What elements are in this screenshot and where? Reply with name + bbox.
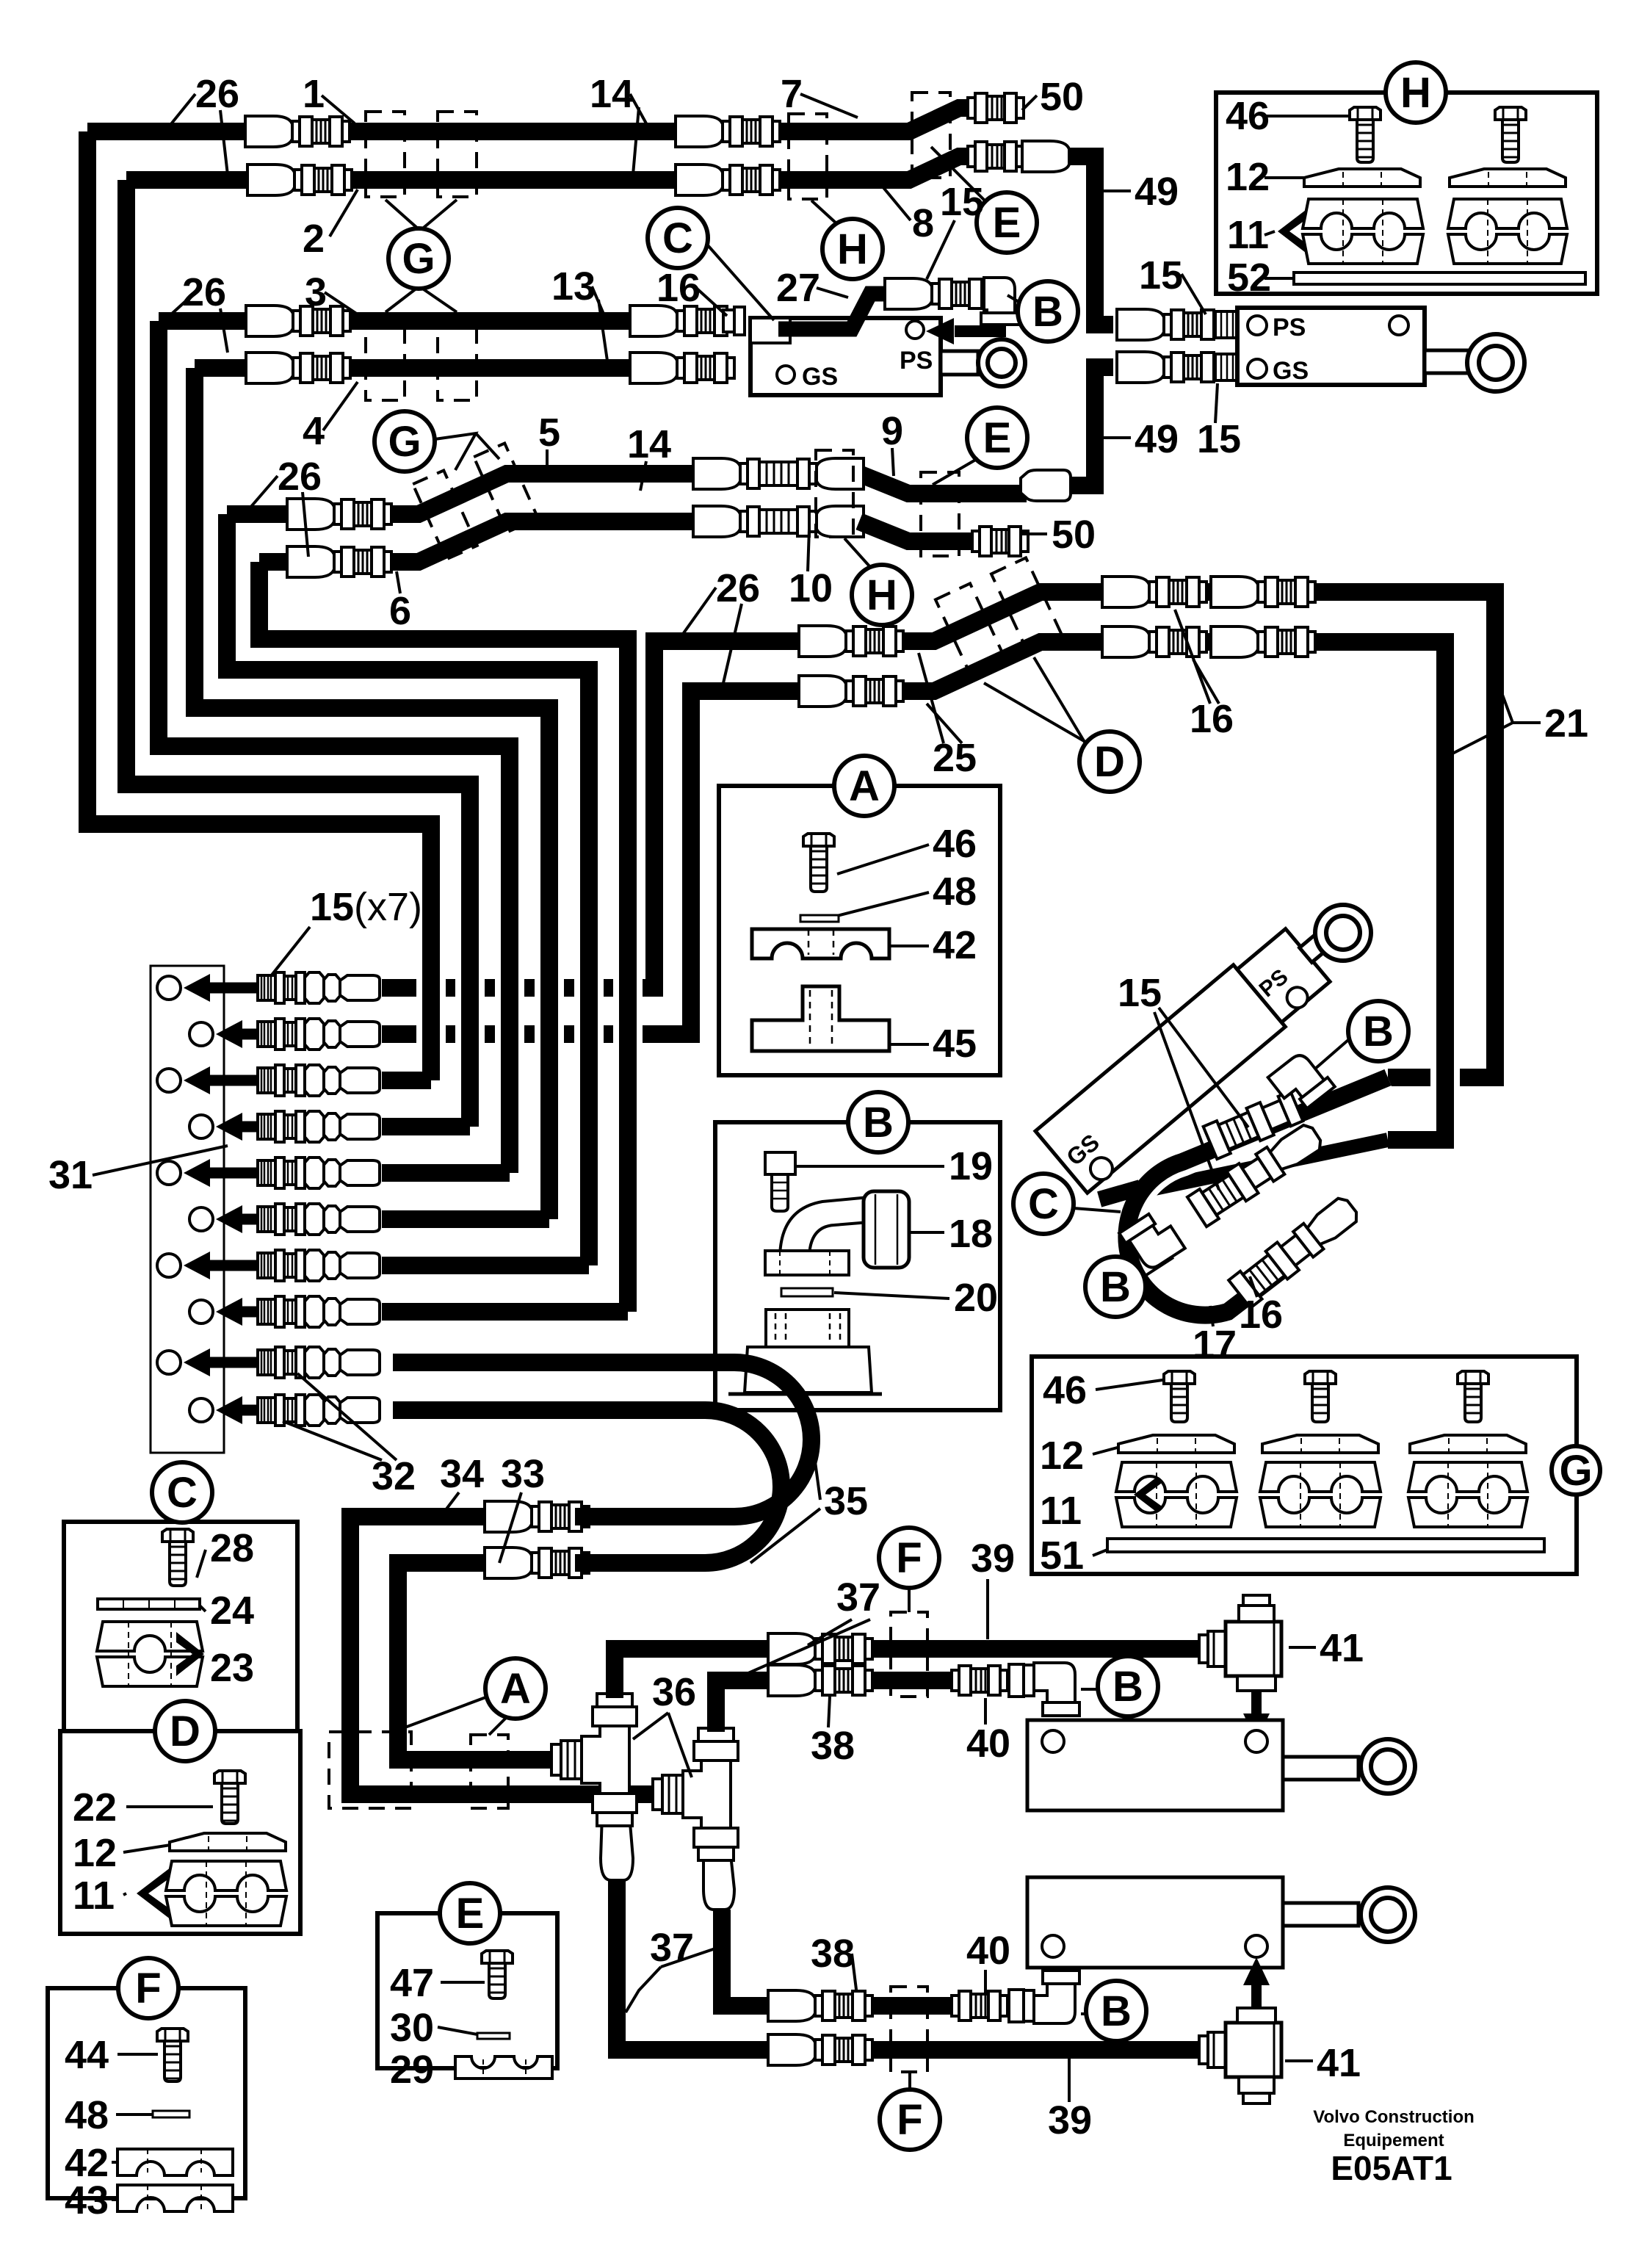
svg-text:B: B [1363, 1008, 1394, 1055]
ferrule tee1 bottom [601, 1814, 633, 1880]
manifold port circle row 8 [189, 1300, 213, 1323]
manifold hose row 5 [382, 1164, 510, 1182]
svg-text:21: 21 [1544, 701, 1588, 745]
svg-text:38: 38 [811, 1724, 855, 1768]
svg-text:E: E [993, 199, 1021, 247]
pointer 11 in D [137, 1863, 177, 1924]
tilted cylinder body [1035, 892, 1373, 1194]
svg-text:11: 11 [1040, 1489, 1082, 1533]
leader B upper cylinder [1081, 1688, 1098, 1691]
elbow B lower tilted [1119, 1207, 1185, 1274]
svg-text:26: 26 [716, 566, 760, 610]
svg-text:11: 11 [1227, 213, 1269, 257]
leader 31 [93, 1146, 228, 1175]
svg-text:33: 33 [501, 1452, 545, 1496]
callout C box [152, 1462, 212, 1523]
hose fitting [885, 278, 989, 309]
manifold hose row 7 [382, 1257, 589, 1274]
hose fitting [1117, 309, 1221, 340]
nut 40 upper [1009, 1664, 1024, 1697]
cover plate 12 in H (right) [1450, 169, 1566, 187]
callout E box [440, 1883, 500, 1943]
cylinder 1 [1027, 1720, 1358, 1810]
washer 20 in B [781, 1288, 833, 1296]
arrow row 1 [184, 974, 338, 1002]
hose 26 staircase line 4 [195, 368, 549, 1219]
manifold hose row 1 [382, 979, 654, 997]
svg-text:23: 23 [210, 1646, 254, 1690]
clamp 23 in C [97, 1622, 203, 1686]
cover plate 12 in D [170, 1833, 286, 1851]
svg-text:E: E [456, 1890, 485, 1937]
manifold hose row 3 [382, 1072, 431, 1089]
hose fitting [630, 306, 734, 336]
leader 9 [892, 448, 894, 476]
svg-text:Equipement: Equipement [1343, 2131, 1444, 2150]
bolt 46 in H (right) [1495, 107, 1526, 162]
callout F lower [880, 2090, 940, 2150]
svg-text:27: 27 [776, 266, 820, 310]
quick coupler 15 row 3 [258, 1065, 380, 1096]
leader 48 F [116, 2113, 153, 2116]
quick coupler 15 row 9 [258, 1347, 380, 1378]
eye ring upper valve [978, 339, 1025, 386]
hose 26 staircase line 5 [227, 514, 589, 1265]
svg-text:G: G [1559, 1447, 1592, 1495]
fitting 50 on hose 7 [968, 93, 1024, 123]
svg-text:15: 15 [1118, 971, 1162, 1015]
hose 26 riser to row 1 [382, 641, 799, 988]
bolt 46 in G [1164, 1371, 1195, 1422]
clamp position G hoses 5-6 b [474, 443, 538, 532]
leader 3 [325, 292, 358, 314]
cover plate 12 in G [1410, 1435, 1526, 1453]
svg-text:8: 8 [912, 201, 934, 245]
detail box G [1032, 1357, 1577, 1574]
svg-text:PS: PS [900, 347, 933, 375]
hose fitting [768, 1990, 872, 2021]
leaders 35 [814, 1451, 820, 1500]
leader 13 [592, 286, 605, 317]
hose fitting [799, 626, 903, 657]
manifold port circle row 2 [189, 1022, 213, 1046]
riser 49 lower [1066, 367, 1113, 485]
svg-text:28: 28 [210, 1526, 254, 1570]
detail box E [377, 1913, 557, 2068]
leader 33 [499, 1492, 521, 1563]
svg-text:A: A [500, 1665, 531, 1713]
ferrule tee2 bottom [703, 1855, 734, 1910]
hose 2 [126, 171, 247, 189]
extra nut 16 hose 3 [723, 307, 745, 335]
leader 11 H [1264, 231, 1275, 235]
eye ring tilted cylinder [1315, 905, 1371, 961]
callout D [1079, 732, 1140, 792]
manifold port circle row 3 [157, 1069, 181, 1092]
clamp position F lower [891, 1987, 927, 2072]
ferrule hose 9 right [1021, 470, 1071, 501]
clamp bar 52 [1294, 272, 1585, 284]
leader 8 [878, 181, 911, 220]
leader 43 [112, 2198, 117, 2201]
leader 52 H [1264, 277, 1294, 280]
clamp 11 in G [1408, 1462, 1527, 1527]
nut 40 lower [1009, 1990, 1024, 2022]
clamp position D b [991, 557, 1062, 651]
hose 26 staircase line 6 [259, 562, 628, 1312]
hose 38 upper run [716, 1680, 768, 1732]
svg-text:35: 35 [824, 1479, 868, 1523]
clamp position G hoses 3-4 b [438, 314, 477, 400]
svg-text:12: 12 [1040, 1434, 1084, 1478]
svg-text:B: B [1101, 1987, 1132, 2035]
svg-text:PS: PS [1273, 314, 1306, 342]
coupling hoses 5/9 [693, 458, 864, 489]
hose 33 [398, 1563, 560, 1760]
leader 51 G [1093, 1550, 1107, 1556]
leader C tilted [1074, 1208, 1121, 1212]
leader 48 A [828, 892, 929, 918]
hose fitting [1102, 626, 1206, 657]
svg-text:2: 2 [303, 217, 325, 261]
leader 14 mid [640, 461, 646, 491]
hose 17 with U-turn [1126, 1077, 1388, 1315]
leader 26 b [163, 292, 195, 322]
bolt 28 in C [162, 1529, 193, 1586]
hose fitting [768, 2034, 872, 2065]
hose 5 [227, 505, 287, 523]
leader 26 c [250, 476, 278, 508]
leader F lower [908, 2072, 911, 2090]
fitting 40 lower [952, 1991, 1007, 2020]
leader 49 lower [1104, 436, 1131, 439]
leader B upper [1007, 295, 1020, 303]
clamp position A horizontals [471, 1735, 508, 1808]
svg-text:16: 16 [1190, 697, 1234, 741]
svg-text:B: B [1100, 1263, 1131, 1311]
svg-text:(x7): (x7) [354, 885, 422, 929]
svg-text:49: 49 [1135, 170, 1179, 214]
manifold plate [151, 966, 224, 1453]
leader 19 [797, 1165, 944, 1168]
hose 21 outer run [892, 592, 1495, 1077]
leader 15 gs row [1215, 383, 1218, 423]
clamp position G hoses 1-2 b [438, 112, 477, 197]
callout B tilted upper [1348, 1001, 1408, 1061]
hose fitting [246, 306, 350, 336]
svg-text:1: 1 [303, 72, 325, 116]
leader 44 [117, 2053, 158, 2056]
leader 6 [397, 571, 400, 593]
quick coupler 15 row 10 [258, 1395, 380, 1426]
eye ring right cylinder [1467, 334, 1524, 391]
svg-text:D: D [1094, 738, 1125, 786]
hose 10 [859, 521, 977, 541]
leader F upper [908, 1588, 911, 1612]
elbow B upper cylinder [1024, 1663, 1079, 1716]
hose 8 to riser 49 [1022, 156, 1113, 325]
clamp half 29 in E [455, 2056, 552, 2079]
port flange in B [728, 1310, 882, 1394]
quick coupler 15 row 6 [258, 1204, 380, 1235]
manifold hose row 2 [382, 1025, 691, 1043]
valve block GS/PS upper [750, 318, 941, 395]
svg-text:37: 37 [836, 1575, 880, 1619]
eye ring cylinder 1 [1361, 1739, 1415, 1794]
svg-text:E05AT1: E05AT1 [1331, 2149, 1452, 2187]
leader 15 ps row [1182, 274, 1206, 314]
leader 24 [200, 1606, 206, 1611]
clamp position A verticals [329, 1732, 411, 1808]
callout G box [1552, 1446, 1600, 1495]
hose fitting [768, 1633, 872, 1664]
bolt 44 in F [157, 2029, 188, 2081]
svg-text:GS: GS [1273, 357, 1309, 385]
svg-text:39: 39 [971, 1536, 1015, 1581]
hose fitting [676, 116, 780, 147]
manifold hose row 4 [382, 1118, 470, 1135]
svg-text:49: 49 [1135, 417, 1179, 461]
tee block 45 in A [752, 986, 889, 1051]
manifold port circle row 7 [157, 1254, 181, 1277]
callout F upper [879, 1528, 939, 1588]
hose 25 upper [799, 632, 848, 650]
svg-text:6: 6 [389, 589, 411, 633]
hose 39 lower run [617, 1880, 1205, 2050]
svg-text:29: 29 [390, 2048, 434, 2092]
hose 26 staircase line 2 [126, 180, 470, 1127]
svg-text:10: 10 [789, 566, 833, 610]
leader 42 F [112, 2161, 117, 2164]
manifold hose row 6 [382, 1210, 549, 1228]
valve rod upper [941, 351, 978, 375]
callout B box [848, 1092, 908, 1152]
leader 26 a [165, 94, 195, 131]
svg-text:C: C [167, 1469, 198, 1517]
threaded stub PS [1215, 311, 1237, 338]
bolt 47 in E [482, 1951, 513, 1998]
clamp plate 42 in A [752, 929, 889, 958]
bolt 46 in H (left) [1350, 107, 1381, 162]
callout B upper cylinder [1098, 1656, 1158, 1716]
leader 50 lower [1022, 532, 1047, 535]
leader H upper [811, 201, 837, 224]
svg-text:15: 15 [1139, 253, 1183, 297]
clamp 11 in G [1116, 1462, 1237, 1527]
svg-text:16: 16 [1239, 1293, 1283, 1337]
hose 9 [859, 474, 1027, 494]
svg-text:30: 30 [390, 2006, 434, 2050]
svg-text:50: 50 [1052, 513, 1096, 557]
callout H box [1386, 62, 1446, 123]
svg-text:Volvo Construction: Volvo Construction [1313, 2107, 1475, 2127]
svg-text:25: 25 [933, 736, 977, 780]
svg-text:F: F [135, 1965, 161, 2012]
svg-text:40: 40 [966, 1722, 1010, 1766]
arrow row 2 [216, 1020, 338, 1048]
leaders D [984, 683, 1085, 742]
leader 14 top [630, 94, 646, 123]
leader 47 [441, 1981, 485, 1984]
svg-text:18: 18 [949, 1212, 993, 1256]
leader H mid [844, 538, 870, 567]
detail box F [48, 1988, 245, 2198]
leaders 16 mid [1175, 610, 1210, 704]
leader 39 upper [986, 1579, 989, 1639]
cylinder rod right [1425, 350, 1469, 373]
leader 40 upper-pair [984, 1970, 987, 1999]
leaders 32 [283, 1421, 382, 1460]
hose 26 staircase line 3 [159, 321, 510, 1173]
pipe from elbow to PS port [955, 323, 1000, 331]
fitting 40 upper [952, 1666, 1007, 1695]
callout A box [834, 756, 894, 816]
hose 26 staircase line 1 [87, 131, 431, 1080]
leader 16 top [696, 288, 727, 316]
leaders 15 tilted [1154, 1012, 1219, 1190]
leader 45 A [872, 1043, 929, 1046]
callout E mid [967, 408, 1027, 468]
leaders 21 [1502, 695, 1541, 723]
leaders 37 upper [808, 1619, 852, 1645]
cover plate 12 in G [1118, 1435, 1234, 1453]
tee fitting 41 lower [1199, 1957, 1281, 2103]
svg-text:E: E [983, 414, 1012, 462]
tee fitting 36 #2 [653, 1728, 738, 1860]
hose 4 [195, 359, 246, 377]
svg-text:20: 20 [954, 1276, 998, 1320]
hose 38 lower run a [722, 1910, 768, 2006]
steering cylinder block right [1237, 308, 1425, 385]
hose fitting [485, 1501, 589, 1532]
svg-text:26: 26 [182, 270, 226, 314]
svg-text:B: B [863, 1099, 894, 1146]
leaders 25 [919, 653, 944, 743]
svg-text:31: 31 [48, 1153, 93, 1197]
svg-text:F: F [896, 1534, 922, 1582]
manifold port circle row 10 [189, 1398, 213, 1422]
leader 46 H [1267, 115, 1357, 118]
svg-text:12: 12 [1226, 155, 1270, 199]
leader 17 [1210, 1306, 1213, 1326]
socket bolt 19 in B [765, 1152, 795, 1211]
detail box H [1216, 93, 1597, 294]
leader 49 upper [1104, 189, 1131, 192]
svg-text:42: 42 [933, 923, 977, 967]
manifold port circle row 1 [157, 976, 181, 1000]
bolt 22 in D [214, 1771, 245, 1824]
leader 39 lower [1068, 2058, 1071, 2102]
bolt 46 in G [1458, 1371, 1488, 1422]
arrow row 8 [216, 1298, 338, 1326]
leader C upper [707, 245, 774, 320]
svg-text:13: 13 [551, 264, 596, 308]
hose 39 upper run [615, 1649, 768, 1698]
hose 6 [259, 553, 287, 571]
bolt 46 in A [803, 834, 834, 892]
quick coupler 15 row 1 [258, 972, 380, 1003]
quick coupler 15 row 4 [258, 1111, 380, 1142]
callout E upper [977, 192, 1037, 253]
svg-text:41: 41 [1320, 1626, 1364, 1670]
svg-text:11: 11 [73, 1874, 115, 1918]
svg-text:24: 24 [210, 1589, 254, 1633]
svg-text:16: 16 [656, 266, 701, 310]
quick coupler 15 row 8 [258, 1296, 380, 1327]
leader 4 [323, 382, 358, 430]
hose fitting [485, 1547, 589, 1578]
svg-text:15: 15 [1197, 417, 1241, 461]
svg-text:C: C [662, 214, 693, 262]
svg-text:C: C [1028, 1180, 1059, 1228]
leader E upper [931, 147, 987, 203]
manifold port circle row 5 [157, 1161, 181, 1185]
cover plate 12 in G [1262, 1435, 1378, 1453]
hose fitting [246, 353, 350, 383]
washer plate 24 in C [98, 1599, 200, 1609]
fitting chain 16 mid [1187, 1119, 1326, 1227]
hose 37 from tee 2 down [707, 1851, 725, 1880]
arrow row 4 [216, 1113, 338, 1141]
svg-text:7: 7 [781, 72, 803, 116]
svg-text:48: 48 [65, 2093, 109, 2137]
callout D box [155, 1701, 215, 1761]
leader 7 [800, 94, 858, 118]
clamp C mark on tilted cylinder [1097, 1180, 1143, 1207]
leader B lower cylinder [1081, 2012, 1086, 2015]
clamp bar 51 [1107, 1539, 1544, 1552]
manifold hose row 8 [382, 1303, 628, 1321]
leader 41 lower [1285, 2059, 1313, 2062]
leader 18 [911, 1231, 944, 1234]
svg-text:B: B [1032, 288, 1063, 336]
detail box C [64, 1522, 297, 1829]
arrow row 7 [184, 1252, 338, 1279]
svg-text:36: 36 [652, 1670, 696, 1714]
washer 48 in A [800, 915, 839, 922]
clamp 11 in D [166, 1861, 286, 1926]
fitting chain 16/17 lower [1229, 1193, 1362, 1308]
svg-text:46: 46 [1043, 1368, 1087, 1412]
pointer 11 in H [1278, 201, 1318, 262]
pointer 11 in G [1134, 1464, 1174, 1525]
svg-text:A: A [849, 762, 880, 810]
leader 38 lower-pair [828, 1697, 830, 1727]
quick coupler 15 row 2 [258, 1019, 380, 1050]
clamp position H hoses 7-8 [789, 114, 827, 199]
arrow row 10 [216, 1396, 338, 1424]
svg-text:39: 39 [1048, 2098, 1092, 2142]
svg-text:4: 4 [303, 409, 325, 453]
elbow fitting 18 in B [765, 1191, 909, 1275]
callout B tilted lower [1085, 1257, 1146, 1317]
clamp half 43 in F [117, 2185, 233, 2211]
fitting 16 upper run b [1211, 577, 1315, 607]
fitting 50 hose 10 end [972, 527, 1028, 556]
hose fitting [287, 499, 391, 530]
callout G mid [375, 411, 435, 472]
leader 15x7 [270, 927, 310, 977]
hose 27 [778, 294, 892, 329]
svg-text:26: 26 [195, 72, 239, 116]
elbow B upper on tilted cylinder [1268, 1049, 1335, 1116]
clamp position G hoses 1-2 a [366, 112, 405, 197]
tee fitting 36 #1 [551, 1694, 637, 1826]
fitting on hose 8 [968, 142, 1024, 171]
hose 38 lower run b [866, 1997, 955, 2015]
clamp position G hoses 3-4 a [366, 314, 405, 400]
cover plate 12 in H (left) [1304, 169, 1420, 187]
